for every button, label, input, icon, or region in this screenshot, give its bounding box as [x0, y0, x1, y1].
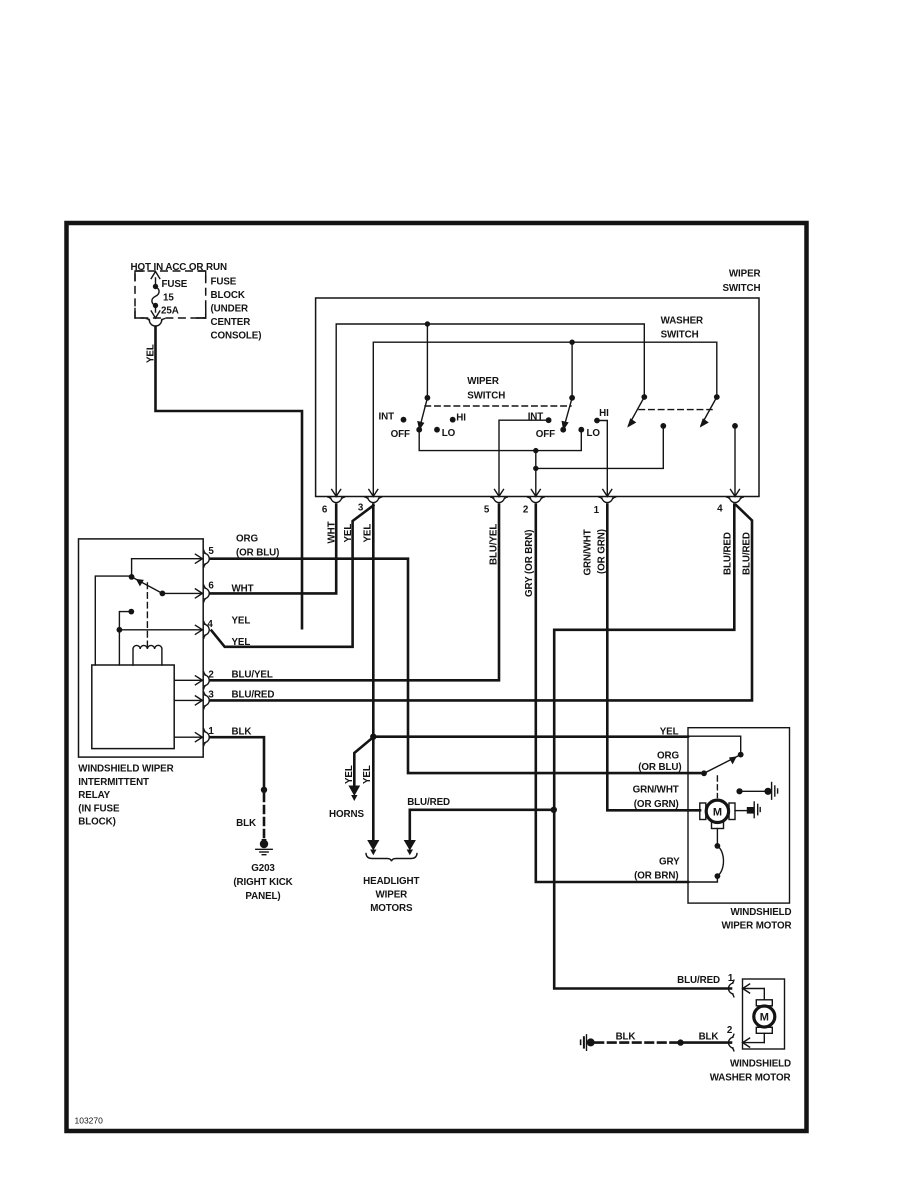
wire BLU/RED branch to headlight right	[410, 810, 554, 842]
contact OFF2	[560, 427, 566, 433]
svg-text:YEL: YEL	[363, 524, 374, 543]
svg-text:LO: LO	[587, 428, 601, 439]
svg-text:WIPER: WIPER	[729, 269, 761, 280]
svg-text:YEL: YEL	[362, 765, 373, 784]
svg-text:FUSE: FUSE	[211, 277, 237, 288]
svg-text:1: 1	[594, 505, 600, 516]
svg-text:BLK: BLK	[699, 1032, 719, 1043]
relay contact stub	[119, 612, 131, 630]
svg-text:BLU/RED: BLU/RED	[677, 975, 720, 986]
switch pin arrows at box bottom	[332, 490, 740, 497]
wire YEL fuse to relay pin4 row	[156, 327, 303, 629]
washer switch 1 arm	[641, 394, 647, 400]
svg-text:ORG: ORG	[657, 750, 679, 761]
wire GRY switch pin2 to wiper motor	[536, 505, 688, 883]
label WINDSHIELD WIPER INTERMITTENT RELAY	[78, 764, 173, 828]
svg-text:(OR GRN): (OR GRN)	[597, 529, 608, 574]
wire BLK dashed	[596, 1041, 679, 1044]
relay pin stubs with arrows	[119, 554, 202, 742]
svg-text:WINDSHIELD: WINDSHIELD	[730, 1059, 791, 1070]
svg-text:INT: INT	[379, 412, 395, 423]
svg-text:103270: 103270	[75, 1116, 104, 1126]
svg-text:WIPER: WIPER	[467, 376, 499, 387]
svg-text:YEL: YEL	[344, 765, 355, 784]
svg-text:WHT: WHT	[327, 521, 338, 543]
svg-text:(OR GRN): (OR GRN)	[634, 799, 679, 810]
fuse block dashed box	[135, 271, 206, 318]
node junction YEL	[370, 734, 376, 740]
svg-text:MOTORS: MOTORS	[370, 903, 413, 914]
relay box	[79, 539, 204, 757]
svg-text:WHT: WHT	[232, 584, 254, 595]
washer contact 1	[660, 423, 666, 429]
pin4 riser to washer contact 2	[734, 426, 736, 497]
svg-text:6: 6	[322, 505, 328, 516]
svg-text:HI: HI	[599, 408, 609, 419]
svg-text:GRN/WHT: GRN/WHT	[633, 784, 679, 795]
bus line A (pin6 to washer pivot)	[336, 324, 644, 497]
ground G203	[256, 839, 272, 855]
relay switch pivot and arm	[95, 559, 131, 665]
wiper switch 1 arm	[419, 398, 427, 429]
contact HI2	[594, 418, 600, 424]
headlight arrow left	[367, 840, 379, 851]
svg-text:M: M	[760, 1012, 769, 1024]
connector below fuse	[149, 320, 162, 327]
wiper switch 1 pivot riser	[426, 324, 428, 398]
contact HI1	[450, 417, 456, 423]
motor M circle	[706, 800, 728, 822]
motor ground 1	[736, 788, 742, 794]
contact INT2	[546, 417, 552, 423]
svg-text:BLU/RED: BLU/RED	[723, 532, 734, 575]
relay pin connectors	[204, 550, 209, 745]
svg-text:SWITCH: SWITCH	[467, 391, 505, 402]
svg-text:WASHER: WASHER	[661, 316, 703, 327]
svg-text:(IN FUSE: (IN FUSE	[78, 803, 120, 814]
washer pin2 arrow	[743, 1038, 765, 1047]
label FUSE BLOCK (UNDER CENTER CONSOLE)	[211, 277, 262, 342]
svg-text:5: 5	[208, 546, 214, 557]
svg-text:YEL: YEL	[660, 727, 679, 738]
svg-text:BLK: BLK	[232, 726, 252, 737]
svg-text:M: M	[713, 807, 722, 819]
svg-text:PANEL): PANEL)	[245, 891, 280, 902]
wire BLK solid to washer pin2	[683, 1041, 731, 1044]
node on line A	[425, 321, 430, 326]
wire BLK relay pin1 to ground	[210, 737, 264, 789]
svg-text:BLK: BLK	[236, 818, 256, 829]
svg-text:CONSOLE): CONSOLE)	[211, 331, 262, 342]
brace under headlight arrows	[366, 854, 417, 862]
washer pin1 connector	[728, 980, 733, 997]
bus line B (pin3 to washer pivot 2)	[373, 342, 717, 496]
relay inner coil box	[92, 665, 174, 749]
svg-text:GRN/WHT: GRN/WHT	[583, 529, 594, 575]
svg-text:WINDSHIELD: WINDSHIELD	[730, 907, 791, 918]
mech link dashes switch1-switch2	[425, 405, 571, 407]
svg-text:BLU/YEL: BLU/YEL	[232, 670, 273, 681]
relay coil	[133, 645, 162, 665]
wire GRN/WHT switch pin1 to wiper motor	[607, 505, 700, 811]
motor park switch arm	[704, 755, 740, 773]
svg-text:HI: HI	[456, 413, 466, 424]
motor dashed link	[716, 776, 718, 798]
pin2 riser to row1	[535, 451, 537, 497]
svg-text:BLK: BLK	[616, 1032, 636, 1043]
svg-text:G203: G203	[251, 863, 275, 874]
pin1 riser to HI2	[597, 421, 607, 497]
washer pin1 arrow	[743, 984, 765, 993]
motor ORG stub	[688, 772, 704, 774]
washer contact 2	[732, 423, 738, 429]
svg-text:(RIGHT KICK: (RIGHT KICK	[233, 877, 292, 888]
svg-text:2: 2	[523, 505, 529, 516]
svg-text:4: 4	[207, 619, 213, 630]
svg-text:HORNS: HORNS	[329, 809, 364, 820]
relay dashed actuator link	[146, 583, 148, 646]
svg-text:5: 5	[484, 505, 490, 516]
washer motor box	[743, 979, 785, 1049]
pin5 riser to INT2	[499, 420, 549, 496]
svg-text:WASHER MOTOR: WASHER MOTOR	[710, 1072, 791, 1083]
mech link dashes washer	[639, 409, 712, 411]
svg-text:YEL: YEL	[232, 616, 251, 627]
wire YEL switch pin3 diag to relay pin4	[212, 506, 374, 647]
wire row2 to washer contact	[536, 426, 664, 469]
svg-text:(OR BLU): (OR BLU)	[638, 762, 681, 773]
wiper switch box	[316, 298, 759, 497]
svg-text:YEL: YEL	[146, 344, 157, 363]
wire ORG relay pin5 to wiper motor	[210, 559, 700, 773]
headlight arrow right	[404, 840, 416, 851]
contact OFF1	[416, 427, 422, 433]
svg-text:RELAY: RELAY	[78, 790, 110, 801]
wire YEL junction to wiper motor	[373, 735, 688, 738]
wiper switch 2 pivot riser	[571, 342, 573, 398]
svg-text:2: 2	[208, 670, 214, 681]
svg-text:WINDSHIELD WIPER: WINDSHIELD WIPER	[78, 764, 173, 775]
washer M circle	[754, 1006, 775, 1027]
motor ground 2	[735, 810, 748, 812]
svg-text:BLU/YEL: BLU/YEL	[489, 524, 500, 565]
node on line B	[569, 340, 574, 345]
motor bottom bracket	[712, 822, 724, 828]
svg-text:3: 3	[208, 690, 214, 701]
svg-text:INTERMITTENT: INTERMITTENT	[78, 777, 149, 788]
contact LO2	[578, 427, 584, 433]
washer pin2 connector	[728, 1034, 733, 1051]
svg-text:BLU/RED: BLU/RED	[232, 689, 275, 700]
svg-text:BLU/RED: BLU/RED	[407, 797, 450, 808]
svg-text:1: 1	[728, 973, 734, 984]
svg-text:(UNDER: (UNDER	[211, 304, 249, 315]
wire BLU/YEL switch pin5 to relay pin2	[210, 505, 499, 681]
horn arrow	[348, 786, 360, 797]
washer motor brackets	[756, 1000, 772, 1006]
contact LO1	[434, 427, 440, 433]
svg-text:6: 6	[208, 581, 214, 592]
svg-text:WIPER MOTOR: WIPER MOTOR	[721, 920, 791, 931]
svg-text:1: 1	[208, 726, 214, 737]
wire YEL switch pin3 down	[372, 505, 375, 737]
wiper switch 2 arm	[564, 398, 573, 429]
svg-text:(OR BRN): (OR BRN)	[634, 871, 678, 882]
wiper motor box	[688, 728, 790, 903]
fuse F15 25A	[151, 272, 188, 319]
contact INT1	[401, 417, 407, 423]
svg-text:OFF: OFF	[536, 429, 555, 440]
washer ground	[581, 1035, 587, 1051]
fuse block corner brackets	[199, 271, 206, 318]
svg-text:BLOCK): BLOCK)	[78, 817, 116, 828]
svg-text:HEADLIGHT: HEADLIGHT	[363, 876, 419, 887]
switch pin connectors	[328, 497, 743, 502]
svg-text:15: 15	[163, 293, 174, 304]
svg-text:YEL: YEL	[343, 524, 354, 543]
svg-text:ORG: ORG	[236, 534, 258, 545]
svg-text:GRY: GRY	[659, 857, 680, 868]
wire WHT switch pin6 to relay pin6	[210, 505, 336, 594]
svg-text:CENTER: CENTER	[211, 317, 251, 328]
svg-text:LO: LO	[442, 428, 456, 439]
svg-text:BLU/RED: BLU/RED	[742, 532, 753, 575]
svg-text:GRY (OR BRN): GRY (OR BRN)	[524, 530, 535, 597]
wire row1 OFF1-LO2	[419, 430, 581, 451]
motor side brackets	[700, 803, 706, 820]
svg-text:4: 4	[717, 504, 723, 515]
motor shaft line and arc	[716, 829, 718, 846]
wire BLU/RED switch pin4 to washer motor	[554, 505, 734, 989]
wire BLU/RED switch pin4 diag to relay pin3	[210, 505, 752, 700]
svg-text:SWITCH: SWITCH	[661, 330, 699, 341]
svg-text:25A: 25A	[161, 306, 179, 317]
wire YEL junction down to headlight motor left	[372, 737, 375, 842]
svg-text:FUSE: FUSE	[162, 279, 188, 290]
svg-text:SWITCH: SWITCH	[722, 283, 760, 294]
svg-text:BLOCK: BLOCK	[211, 290, 245, 301]
svg-text:WIPER: WIPER	[375, 890, 407, 901]
svg-text:YEL: YEL	[232, 637, 251, 648]
border frame	[67, 223, 807, 1131]
svg-text:2: 2	[727, 1025, 733, 1036]
svg-text:(OR BLU): (OR BLU)	[236, 547, 279, 558]
wire YEL diag to horns	[354, 738, 372, 787]
washer switch 2 arm	[714, 394, 720, 400]
svg-text:OFF: OFF	[391, 429, 410, 440]
motor park switch wiring	[688, 736, 741, 754]
